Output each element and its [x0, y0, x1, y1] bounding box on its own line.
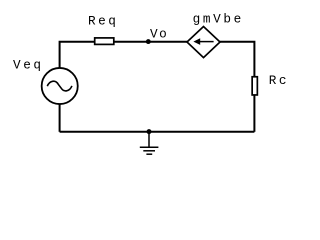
- dependent current source gmVbe (diamond): [187, 27, 220, 58]
- node Vo junction dot: [146, 39, 151, 44]
- resistor Req: [95, 38, 114, 45]
- wire: Rc bottom to bottom-right corner: [253, 95, 255, 132]
- svg-text:Veq: Veq: [13, 57, 41, 72]
- wire bottom: [60, 131, 255, 133]
- wire: diamond right vertex to top-right corner, down to Rc: [220, 42, 254, 76]
- resistor Rc: [252, 77, 257, 95]
- svg-text:Req: Req: [88, 14, 116, 29]
- wire: left branch down to source: [59, 104, 61, 132]
- svg-text:Vo: Vo: [150, 27, 167, 42]
- ground junction dot: [147, 129, 152, 134]
- ground: [140, 132, 159, 154]
- sine wave inside source: [47, 81, 72, 91]
- voltage source Veq (circle): [42, 68, 78, 104]
- svg-text:gmVbe: gmVbe: [193, 12, 242, 27]
- wire top: left corner to diamond left vertex: [60, 42, 187, 68]
- arrow inside source (points left): [199, 41, 214, 43]
